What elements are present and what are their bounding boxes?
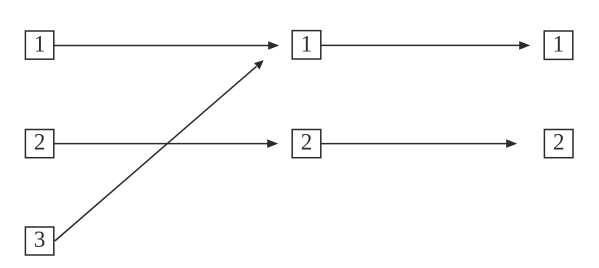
node box L1 (left column, "1"): [25, 31, 53, 59]
node box L3 (left column, "3"): [25, 227, 53, 255]
arrow M2 to R2: [321, 139, 517, 148]
svg-text:2: 2: [34, 130, 46, 155]
svg-text:3: 3: [34, 227, 46, 252]
arrow L3 to M1 (diagonal): [55, 60, 264, 241]
arrow M1 to R1: [321, 41, 530, 50]
node box R2 (right column, "2"): [544, 130, 573, 158]
svg-text:1: 1: [301, 31, 313, 56]
node box M1 (middle column, "1"): [292, 31, 321, 59]
svg-text:1: 1: [34, 31, 46, 56]
svg-text:2: 2: [553, 130, 565, 155]
node box M2 (middle column, "2"): [292, 130, 321, 158]
node box L2 (left column, "2"): [25, 130, 53, 158]
arrow L1 to M1: [55, 41, 280, 50]
svg-text:2: 2: [301, 130, 313, 155]
node box R1 (right column, "1"): [544, 31, 573, 59]
svg-text:1: 1: [553, 31, 565, 56]
arrow L2 to M2: [55, 139, 279, 148]
